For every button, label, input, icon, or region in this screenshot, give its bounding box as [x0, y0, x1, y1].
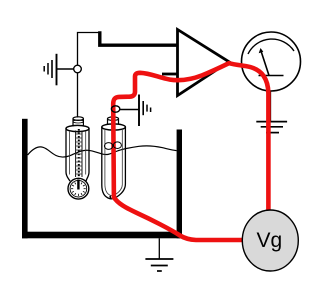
svg-text:Vg: Vg	[256, 229, 282, 252]
